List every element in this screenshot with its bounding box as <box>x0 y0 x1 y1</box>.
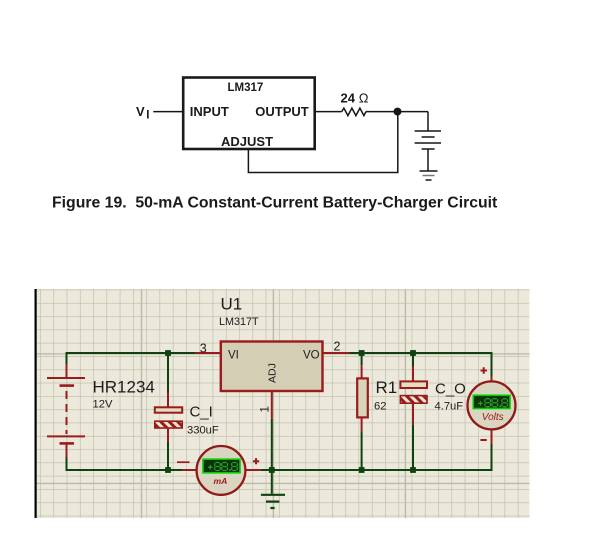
svg-text:330uF: 330uF <box>187 425 219 437</box>
svg-text:C_I: C_I <box>190 404 213 421</box>
svg-text:mA: mA <box>214 476 228 486</box>
svg-text:4.7uF: 4.7uF <box>435 400 464 412</box>
svg-text:VO: VO <box>303 350 320 362</box>
svg-text:62: 62 <box>374 400 386 412</box>
svg-text:3: 3 <box>200 342 207 356</box>
svg-text:VI: VI <box>228 350 239 362</box>
svg-text:Figure 19. 50-mA Constant-Cur: Figure 19. 50-mA Constant-Current Batter… <box>52 195 498 212</box>
svg-text:2: 2 <box>334 340 341 354</box>
svg-text:Volts: Volts <box>482 412 504 423</box>
svg-text:12V: 12V <box>93 399 113 411</box>
svg-text:1: 1 <box>260 406 272 412</box>
svg-text:24 Ω: 24 Ω <box>341 90 369 105</box>
svg-text:LM317: LM317 <box>228 82 264 94</box>
svg-text:V: V <box>136 104 145 119</box>
svg-text:I: I <box>146 110 149 122</box>
svg-text:INPUT: INPUT <box>190 104 229 119</box>
svg-text:ADJUST: ADJUST <box>221 134 273 149</box>
svg-text:C_O: C_O <box>435 381 466 398</box>
svg-text:U1: U1 <box>221 294 243 313</box>
svg-text:HR1234: HR1234 <box>93 378 155 397</box>
svg-text:ADJ: ADJ <box>267 363 279 383</box>
svg-text:LM317T: LM317T <box>219 316 259 328</box>
svg-text:OUTPUT: OUTPUT <box>255 104 308 119</box>
svg-text:R1: R1 <box>376 378 398 397</box>
